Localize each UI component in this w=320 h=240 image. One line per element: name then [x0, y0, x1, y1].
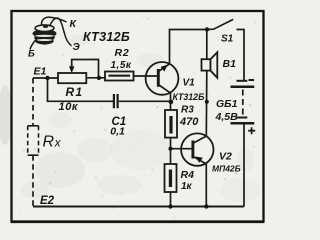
svg-text:R3: R3	[181, 104, 194, 115]
svg-text:10к: 10к	[59, 101, 79, 113]
svg-text:R4: R4	[181, 169, 195, 181]
svg-text:Э: Э	[73, 42, 81, 53]
svg-text:GБ1: GБ1	[216, 98, 238, 110]
svg-text:МП42Б: МП42Б	[212, 163, 241, 173]
svg-text:КТ312Б: КТ312Б	[173, 92, 205, 102]
svg-text:1к: 1к	[181, 181, 193, 192]
svg-text:Rх: Rх	[43, 134, 62, 151]
svg-text:0,1: 0,1	[110, 125, 125, 137]
svg-text:R2: R2	[115, 47, 130, 59]
svg-text:Е2: Е2	[40, 195, 55, 207]
svg-text:В1: В1	[223, 58, 237, 70]
svg-text:470: 470	[179, 116, 199, 128]
svg-text:R1: R1	[66, 85, 84, 99]
svg-text:V1: V1	[183, 78, 196, 89]
svg-text:КТ312Б: КТ312Б	[83, 30, 130, 44]
svg-text:S1: S1	[221, 34, 234, 45]
svg-text:Б: Б	[28, 49, 35, 60]
svg-text:V2: V2	[219, 151, 232, 163]
svg-text:Е1: Е1	[34, 66, 47, 78]
svg-text:4,5В: 4,5В	[215, 111, 239, 123]
svg-text:1,5к: 1,5к	[111, 60, 132, 71]
